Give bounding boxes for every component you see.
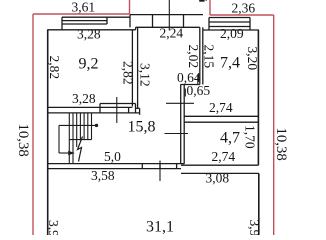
- svg-text:3,08: 3,08: [206, 171, 230, 186]
- svg-text:9,2: 9,2: [79, 56, 99, 73]
- stair tread 1: [68, 113, 70, 164]
- svg-text:0,65: 0,65: [187, 83, 211, 98]
- wall corridor band top: [130, 14, 203, 16]
- window W2 left jamb: [208, 18, 210, 31]
- red boundary notch vertical left: [129, 0, 131, 14]
- bracket 0,64: [197, 75, 199, 85]
- stair walk line horizontal: [59, 152, 69, 154]
- svg-text:5,0: 5,0: [104, 149, 121, 164]
- wall room 31,1 north bottom line right: [181, 172, 259, 174]
- red boundary top-left segment: [33, 13, 130, 15]
- window W2 glass line 1: [209, 17, 250, 19]
- svg-text:2,74: 2,74: [209, 100, 233, 115]
- window W2 glass line 3: [209, 26, 250, 28]
- wall corridor/room 9,2 divider line b: [137, 27, 139, 108]
- wall room 15,8 south bottom line left: [47, 168, 181, 170]
- window W1 glass line 1: [62, 20, 107, 22]
- door jamb left: [141, 164, 143, 169]
- svg-text:2,15: 2,15: [202, 45, 217, 69]
- window W2 right jamb: [249, 18, 251, 31]
- svg-text:2,24: 2,24: [160, 26, 184, 41]
- wall corridor band bottom: [136, 26, 200, 28]
- svg-text:3,20: 3,20: [245, 47, 260, 71]
- window W1 left jamb: [61, 17, 63, 30]
- stair walk arrow head: [68, 151, 75, 156]
- wall room 9,2 north inner: [47, 29, 135, 31]
- red boundary left side: [32, 14, 34, 235]
- svg-text:2,74: 2,74: [212, 149, 236, 164]
- window W1 right jamb: [106, 17, 108, 24]
- tick on hall wall upper: [166, 102, 194, 104]
- wall corridor divider 1: [152, 15, 154, 28]
- svg-text:3,95: 3,95: [247, 220, 262, 236]
- svg-text:4,7: 4,7: [220, 130, 240, 147]
- stair tread 2: [72, 113, 74, 164]
- stair rail end dot: [95, 124, 98, 127]
- wall nook connector: [181, 84, 200, 86]
- svg-text:15,8: 15,8: [128, 119, 156, 136]
- stair rail: [59, 124, 97, 126]
- svg-text:2,02: 2,02: [186, 45, 201, 69]
- wall room 9,2 south line B: [47, 106, 132, 108]
- door tick bottom: [159, 161, 161, 182]
- stair walk line vertical: [58, 125, 60, 153]
- svg-text:31,1: 31,1: [146, 219, 174, 236]
- wall room 7,4 west line a: [199, 27, 201, 84]
- wall corridor band left end: [129, 15, 131, 28]
- wall room 7,4 east: [257, 30, 259, 165]
- wall room 4,7 north line a: [184, 115, 258, 117]
- svg-text:3,28: 3,28: [77, 27, 101, 42]
- stair tread 7: [91, 113, 93, 140]
- wall south junction vertical 1: [99, 104, 101, 113]
- window W1 glass line 2: [62, 23, 107, 25]
- wall corridor divider 2: [183, 15, 185, 28]
- stair platform edge: [69, 139, 91, 141]
- door tick room 9,2: [116, 97, 118, 123]
- bracket 0,65: [184, 89, 186, 97]
- svg-text:1,70: 1,70: [243, 125, 258, 149]
- wall south junction vertical 4: [135, 104, 137, 113]
- svg-text:2,82: 2,82: [121, 61, 136, 85]
- svg-text:3,28: 3,28: [72, 91, 96, 106]
- wall left exterior: [47, 30, 49, 235]
- wall room 7,4 west line b: [202, 27, 204, 84]
- wall hall west line a: [180, 85, 182, 164]
- stair tread 3: [76, 113, 78, 147]
- svg-text:2,82: 2,82: [47, 56, 62, 80]
- svg-text:10,38: 10,38: [273, 128, 289, 161]
- red boundary right side: [273, 15, 275, 235]
- window W2 glass line 2: [209, 21, 250, 23]
- wall hall west line b: [183, 85, 185, 164]
- svg-text:2,09: 2,09: [220, 26, 244, 41]
- tick dimension 2,24: [168, 0, 170, 31]
- door jamb right2: [176, 164, 178, 169]
- wall step corridor left: [135, 27, 137, 30]
- wall south junction vertical 3: [128, 107, 130, 113]
- wall room 9,2 south line C: [47, 112, 139, 114]
- wall south junction line E: [136, 107, 140, 109]
- stair break zigzag: [78, 137, 83, 162]
- red boundary top-right segment: [210, 14, 274, 16]
- svg-text:2,36: 2,36: [232, 1, 256, 16]
- door jamb right: [159, 164, 161, 169]
- svg-text:3,12: 3,12: [138, 63, 153, 87]
- wall room 31,1 east: [258, 173, 260, 235]
- wall south junction vertical 5: [139, 108, 141, 115]
- stair tread 5: [83, 113, 85, 140]
- svg-text:3,61: 3,61: [72, 0, 96, 15]
- svg-text:3,95: 3,95: [46, 220, 61, 235]
- svg-text:3,58: 3,58: [91, 168, 115, 183]
- stair tread 4: [79, 113, 81, 141]
- wall room 15,8 south top line: [47, 163, 184, 165]
- wall room 31,1 north top line right: [181, 164, 258, 166]
- top edge text remnant: [199, 0, 204, 2]
- wall room 9,2 south line A: [100, 103, 136, 105]
- window W1 outer line: [62, 16, 130, 18]
- tick on hall wall lower: [165, 133, 189, 135]
- wall room 7,4 north inner: [203, 29, 259, 31]
- svg-text:10,38: 10,38: [15, 124, 31, 157]
- wall corridor/room 9,2 divider line a: [131, 30, 133, 107]
- svg-text:7,4: 7,4: [220, 55, 240, 72]
- stair tread 6: [87, 113, 89, 140]
- wall room 4,7 north line b: [184, 121, 258, 123]
- red boundary notch vertical right: [209, 0, 211, 15]
